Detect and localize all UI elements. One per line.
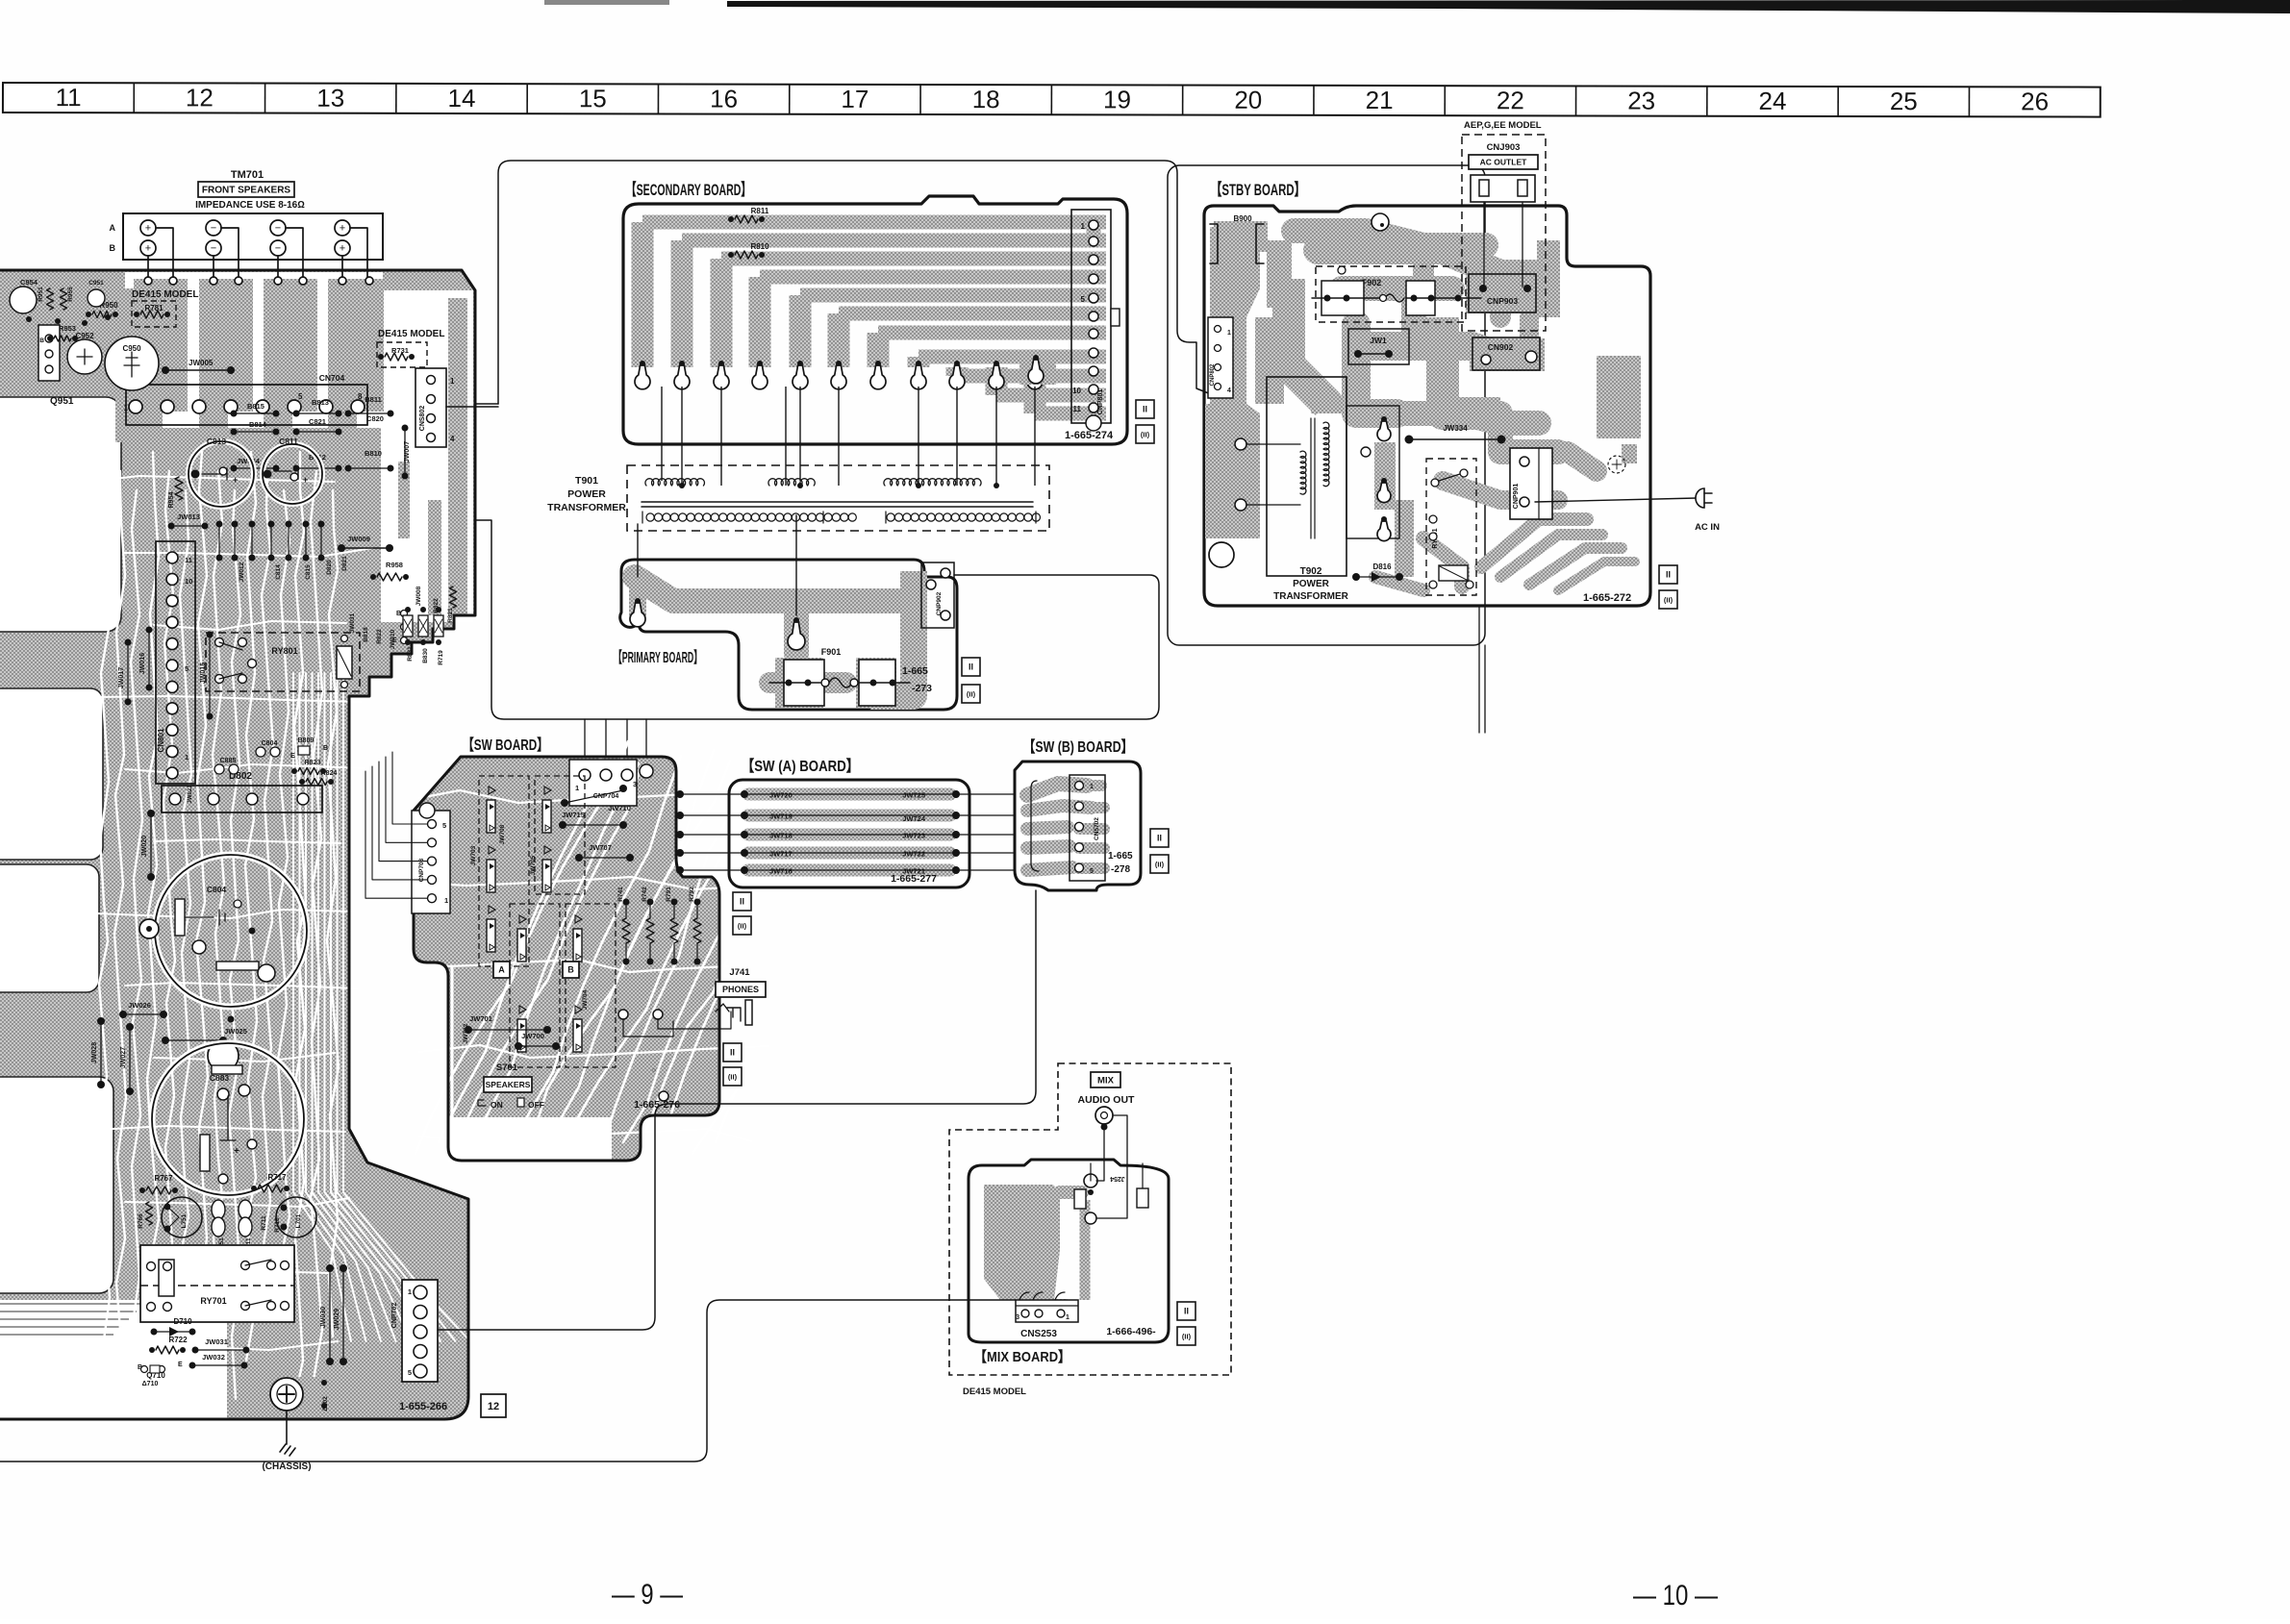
svg-text:CN704: CN704 bbox=[319, 373, 345, 383]
svg-text:R731: R731 bbox=[391, 346, 409, 355]
capacitor C952 bbox=[67, 339, 102, 374]
svg-text:【SW BOARD】: 【SW BOARD】 bbox=[463, 737, 548, 754]
push switch bbox=[519, 915, 526, 923]
fuse F902 dashed box bbox=[1316, 266, 1466, 322]
svg-text:C951: C951 bbox=[88, 280, 104, 287]
svg-text:JW701: JW701 bbox=[469, 1014, 492, 1023]
svg-text:1-665-277: 1-665-277 bbox=[891, 873, 937, 885]
svg-text:CNP802: CNP802 bbox=[1210, 363, 1216, 386]
svg-text:R781: R781 bbox=[144, 304, 164, 312]
svg-text:R741: R741 bbox=[617, 887, 624, 902]
svg-text:JW017: JW017 bbox=[118, 667, 125, 688]
primary windings (bottom row circles) bbox=[646, 513, 654, 521]
svg-text:1: 1 bbox=[450, 377, 455, 386]
wires main->CNP703 bbox=[392, 752, 427, 824]
connector CN801 bbox=[156, 541, 195, 784]
connector CN5702 bbox=[1070, 775, 1105, 881]
connector CNS253 bbox=[1016, 1300, 1078, 1322]
svg-text:1-665-274: 1-665-274 bbox=[1065, 430, 1114, 441]
svg-text:JW021: JW021 bbox=[188, 785, 193, 804]
svg-text:JW725: JW725 bbox=[902, 791, 925, 800]
svg-text:+: + bbox=[145, 222, 151, 234]
svg-text:CNP901: CNP901 bbox=[1513, 484, 1520, 510]
thin enclosure around STBY bbox=[1168, 165, 1485, 645]
svg-text:1-665: 1-665 bbox=[902, 665, 928, 677]
svg-text:B: B bbox=[39, 337, 44, 344]
svg-text:R958: R958 bbox=[386, 561, 403, 569]
grid markers STBY bbox=[1659, 565, 1677, 584]
svg-text:RY701: RY701 bbox=[200, 1296, 226, 1306]
main board outline stroke bbox=[0, 270, 475, 1419]
svg-text:JW031: JW031 bbox=[205, 1337, 228, 1346]
svg-text:1: 1 bbox=[444, 896, 448, 905]
svg-text:AEP,G,EE MODEL: AEP,G,EE MODEL bbox=[1464, 120, 1542, 131]
svg-text:RY801: RY801 bbox=[271, 646, 297, 656]
svg-text:JW710: JW710 bbox=[608, 804, 631, 812]
svg-text:5: 5 bbox=[1090, 868, 1094, 875]
resistor R810 bbox=[728, 252, 734, 258]
pad bbox=[679, 361, 685, 366]
grid markers primary bbox=[962, 658, 980, 676]
svg-text:AUDIO OUT: AUDIO OUT bbox=[1078, 1094, 1136, 1106]
svg-text:JW722: JW722 bbox=[902, 850, 925, 859]
svg-text:21: 21 bbox=[1366, 86, 1394, 114]
svg-text:CNP903: CNP903 bbox=[1487, 296, 1518, 306]
wire CNS802 to enclosure bbox=[446, 406, 498, 408]
svg-text:-278: -278 bbox=[1111, 864, 1130, 875]
svg-text:JW031: JW031 bbox=[349, 612, 356, 633]
svg-text:○: ○ bbox=[652, 1067, 656, 1074]
pad bbox=[718, 361, 724, 366]
svg-text:(II): (II) bbox=[1664, 596, 1673, 605]
svg-text:13: 13 bbox=[316, 84, 344, 112]
MIX dashed enclosure bbox=[949, 1063, 1231, 1375]
svg-text:B809: B809 bbox=[298, 737, 315, 744]
svg-text:JW009: JW009 bbox=[347, 535, 370, 543]
svg-text:B815: B815 bbox=[247, 402, 264, 411]
svg-text:19: 19 bbox=[1103, 85, 1131, 113]
svg-text:TRANSFORMER: TRANSFORMER bbox=[547, 502, 626, 513]
svg-text:1-666-496-: 1-666-496- bbox=[1106, 1326, 1156, 1337]
grid markers MIX bbox=[1177, 1302, 1195, 1320]
svg-text:II: II bbox=[1184, 1307, 1189, 1316]
svg-text:5: 5 bbox=[408, 1368, 412, 1377]
svg-text:R767: R767 bbox=[154, 1174, 173, 1183]
thin enclosure line (power section) bbox=[498, 161, 1211, 404]
pad bbox=[757, 361, 763, 366]
svg-text:A: A bbox=[498, 965, 505, 975]
pad bbox=[1032, 361, 1038, 366]
svg-text:R711: R711 bbox=[261, 1215, 267, 1231]
svg-text:D821: D821 bbox=[341, 556, 348, 571]
copper-free cutout top-left bbox=[0, 397, 121, 632]
svg-text:JW008: JW008 bbox=[415, 586, 422, 606]
svg-text:R823: R823 bbox=[305, 760, 321, 766]
jumper wire row bbox=[748, 847, 950, 860]
svg-text:DE415 MODEL: DE415 MODEL bbox=[132, 289, 198, 300]
svg-text:B818: B818 bbox=[363, 627, 369, 642]
svg-text:R831: R831 bbox=[407, 646, 414, 662]
svg-text:1: 1 bbox=[575, 784, 579, 792]
wire main board to CNS253 bbox=[0, 1300, 1016, 1462]
phones pads + jack J741 bbox=[618, 1010, 628, 1019]
push switch bbox=[489, 846, 495, 854]
svg-text:JW718: JW718 bbox=[769, 832, 793, 840]
MIX label + AUDIO OUT bbox=[1091, 1072, 1120, 1087]
svg-text:C885: C885 bbox=[220, 758, 237, 764]
svg-text:【STBY BOARD】: 【STBY BOARD】 bbox=[1211, 180, 1305, 199]
pads between caps bbox=[258, 964, 275, 982]
main amplifier board outline 1-655-266 bbox=[0, 270, 475, 1419]
svg-text:IMPEDANCE USE 8-16Ω: IMPEDANCE USE 8-16Ω bbox=[195, 200, 305, 211]
JW1 jumper box bbox=[1348, 329, 1409, 364]
svg-text:JW013: JW013 bbox=[177, 512, 200, 521]
svg-text:S701: S701 bbox=[496, 1062, 518, 1073]
svg-text:12: 12 bbox=[488, 1401, 499, 1412]
svg-text:C821: C821 bbox=[309, 417, 326, 426]
svg-text:−: − bbox=[211, 222, 216, 234]
svg-text:R791: R791 bbox=[666, 887, 672, 902]
svg-text:A: A bbox=[110, 223, 116, 233]
svg-text:L701: L701 bbox=[295, 1213, 302, 1228]
svg-text:POWER: POWER bbox=[1293, 579, 1330, 589]
svg-text:10: 10 bbox=[185, 577, 192, 586]
svg-text:FRONT SPEAKERS: FRONT SPEAKERS bbox=[202, 186, 291, 196]
svg-text:R719: R719 bbox=[438, 650, 444, 665]
svg-text:12: 12 bbox=[186, 83, 214, 112]
svg-text:(CHASSIS): (CHASSIS) bbox=[262, 1462, 311, 1472]
svg-text:C820: C820 bbox=[366, 414, 384, 423]
svg-text:D820: D820 bbox=[326, 560, 333, 575]
svg-text:II: II bbox=[1157, 834, 1162, 843]
J254 pad bbox=[1084, 1174, 1097, 1187]
svg-text:8: 8 bbox=[358, 392, 363, 401]
svg-text:R792: R792 bbox=[689, 887, 695, 902]
chassis ground bbox=[286, 1412, 288, 1444]
T902 transformer bbox=[1267, 377, 1346, 576]
svg-text:4: 4 bbox=[1227, 387, 1231, 394]
svg-text:T901: T901 bbox=[575, 475, 598, 487]
svg-text:25: 25 bbox=[1890, 87, 1918, 115]
connector CNP902 bbox=[921, 562, 954, 628]
svg-text:JW724: JW724 bbox=[902, 814, 926, 823]
svg-text:3: 3 bbox=[1016, 1314, 1019, 1321]
svg-text:D710: D710 bbox=[173, 1317, 192, 1326]
svg-text:E: E bbox=[290, 753, 295, 760]
svg-text:II: II bbox=[1666, 570, 1671, 580]
svg-text:CNS253: CNS253 bbox=[1020, 1329, 1057, 1339]
wires SW->SW(A) and SW(A)->SW(B) bbox=[676, 793, 744, 795]
RCA jack bbox=[1095, 1107, 1113, 1124]
two jumper rects bbox=[1074, 1189, 1086, 1209]
MIX gray blob bbox=[984, 1185, 1060, 1300]
svg-text:C954: C954 bbox=[20, 278, 38, 287]
svg-text:−: − bbox=[275, 222, 281, 234]
primary board outline 1-665-273 bbox=[620, 560, 957, 710]
jumper wire row bbox=[748, 864, 950, 877]
jumper wire row bbox=[748, 829, 950, 841]
svg-text:R766: R766 bbox=[138, 1213, 144, 1229]
svg-text:R742: R742 bbox=[642, 887, 648, 902]
svg-text:(II): (II) bbox=[1155, 861, 1165, 869]
SW board gray fill bbox=[414, 757, 719, 1161]
svg-text:R822: R822 bbox=[376, 629, 383, 644]
svg-text:JW707: JW707 bbox=[589, 843, 612, 852]
C751 / C711 caps bbox=[212, 1200, 225, 1219]
svg-text:TM701: TM701 bbox=[231, 169, 264, 181]
svg-text:— 9 —: — 9 — bbox=[612, 1579, 683, 1611]
svg-text:DE415 MODEL: DE415 MODEL bbox=[378, 329, 444, 339]
svg-text:POWER: POWER bbox=[567, 488, 606, 500]
svg-text:3: 3 bbox=[633, 780, 637, 788]
svg-text:PHONES: PHONES bbox=[722, 985, 759, 994]
connector CNS802 (right edge of main board) bbox=[415, 368, 446, 447]
svg-text:CN5702: CN5702 bbox=[1094, 817, 1100, 840]
svg-text:CN902: CN902 bbox=[1488, 342, 1514, 352]
relay RY701 box bbox=[140, 1245, 294, 1322]
svg-text:JW717: JW717 bbox=[769, 850, 793, 859]
SW(B) board outline 1-665-278 bbox=[1015, 762, 1141, 890]
svg-text:1-665-272: 1-665-272 bbox=[1583, 592, 1631, 604]
L751 / L701 coils bbox=[162, 1197, 202, 1237]
connector CNP702 bbox=[402, 1280, 438, 1382]
pad bbox=[640, 361, 645, 366]
svg-text:R717: R717 bbox=[267, 1173, 287, 1182]
big capacitor C804 (large can) bbox=[155, 855, 307, 1007]
big capacitors C813 / C811 bbox=[189, 441, 254, 507]
svg-text:JW705: JW705 bbox=[530, 855, 537, 875]
svg-text:R824: R824 bbox=[321, 770, 338, 777]
svg-text:B811: B811 bbox=[365, 395, 382, 404]
enclosure tail below STBY bbox=[1479, 607, 1485, 733]
push switch bbox=[575, 1006, 582, 1013]
svg-text:20: 20 bbox=[1234, 86, 1262, 114]
svg-text:AC OUTLET: AC OUTLET bbox=[1480, 158, 1527, 167]
svg-text:JW703: JW703 bbox=[470, 845, 477, 865]
svg-text:ON: ON bbox=[491, 1100, 503, 1110]
svg-text:Q951: Q951 bbox=[50, 396, 74, 407]
page-top scan bar bbox=[727, 0, 2290, 13]
svg-text:C952: C952 bbox=[75, 332, 94, 340]
connector CN704 bbox=[126, 385, 367, 425]
svg-text:+: + bbox=[303, 475, 308, 485]
svg-text:JW708: JW708 bbox=[499, 824, 506, 844]
svg-text:【PRIMARY BOARD】: 【PRIMARY BOARD】 bbox=[614, 649, 702, 666]
svg-text:B830: B830 bbox=[422, 648, 429, 663]
svg-text:J254: J254 bbox=[1110, 1175, 1125, 1182]
wires transformer to primary bbox=[637, 524, 639, 577]
svg-text:-273: -273 bbox=[912, 683, 932, 694]
svg-text:R810: R810 bbox=[750, 242, 769, 251]
svg-text:10: 10 bbox=[1072, 387, 1081, 395]
svg-text:JW029: JW029 bbox=[334, 1309, 340, 1330]
svg-text:11: 11 bbox=[1073, 405, 1082, 413]
svg-text:R722: R722 bbox=[168, 1336, 188, 1344]
copper-free cutout mid-left 2 bbox=[0, 864, 99, 992]
svg-text:【MIX BOARD】: 【MIX BOARD】 bbox=[974, 1348, 1070, 1365]
dashed pad circle bbox=[1608, 456, 1625, 473]
svg-text:R954: R954 bbox=[168, 492, 175, 509]
svg-text:C814: C814 bbox=[275, 564, 282, 580]
connector CNP901 bbox=[1510, 448, 1552, 519]
svg-text:−: − bbox=[211, 242, 216, 254]
svg-text:1: 1 bbox=[1066, 1314, 1070, 1321]
secondary windings (top row coils) bbox=[645, 479, 705, 486]
push switch bbox=[544, 846, 551, 854]
svg-text:22: 22 bbox=[1497, 86, 1524, 114]
grid markers secondary bbox=[1136, 400, 1154, 418]
relay RY801 dashed box bbox=[206, 633, 360, 691]
connector CN902 bbox=[1472, 337, 1540, 370]
svg-text:1: 1 bbox=[185, 753, 189, 762]
wires to RCA jack bbox=[1096, 1124, 1104, 1181]
grid ref 12 bbox=[481, 1394, 506, 1417]
svg-text:【SECONDARY BOARD】: 【SECONDARY BOARD】 bbox=[626, 180, 751, 199]
svg-text:J741: J741 bbox=[729, 967, 750, 978]
big capacitor C803 (large can) bbox=[152, 1043, 304, 1195]
capacitor C950 bbox=[105, 337, 159, 390]
svg-text:26: 26 bbox=[2021, 87, 2049, 115]
jumper wire row bbox=[748, 810, 950, 822]
connector CNP801 bbox=[1071, 210, 1111, 423]
svg-text:JW010: JW010 bbox=[390, 629, 396, 649]
svg-text:B: B bbox=[323, 745, 328, 752]
chassis screw pad bbox=[262, 1377, 331, 1412]
keyhole pad lower-left of CNP801 bbox=[1019, 352, 1056, 385]
long wire from main board to SW(B) via top rail bbox=[475, 520, 1159, 719]
push switch bbox=[519, 1006, 526, 1013]
pad bbox=[954, 361, 960, 366]
svg-text:B: B bbox=[110, 243, 116, 253]
svg-text:AC IN: AC IN bbox=[1695, 522, 1720, 533]
svg-text:(II): (II) bbox=[967, 690, 976, 699]
svg-text:17: 17 bbox=[841, 85, 868, 113]
svg-text:R821: R821 bbox=[447, 608, 454, 623]
STBY board outline 1-665-272 bbox=[1204, 206, 1650, 606]
svg-text:JW715: JW715 bbox=[562, 811, 585, 819]
CNP704 riser wires bbox=[585, 719, 627, 769]
svg-text:II: II bbox=[740, 897, 744, 907]
SW board outline 1-665-276 bbox=[414, 757, 719, 1161]
svg-text:B900: B900 bbox=[1233, 214, 1252, 223]
svg-text:JW704: JW704 bbox=[582, 989, 589, 1010]
svg-text:R955: R955 bbox=[67, 287, 74, 302]
push switch bbox=[575, 915, 582, 923]
svg-text:B813: B813 bbox=[312, 398, 329, 407]
svg-text:4: 4 bbox=[450, 435, 455, 443]
svg-text:C815: C815 bbox=[305, 564, 312, 580]
svg-text:JW026: JW026 bbox=[128, 1001, 151, 1010]
svg-text:JW032: JW032 bbox=[202, 1353, 225, 1362]
svg-text:−: − bbox=[275, 242, 281, 254]
svg-text:JW716: JW716 bbox=[769, 867, 793, 876]
svg-text:14: 14 bbox=[448, 84, 476, 112]
svg-text:JW005: JW005 bbox=[189, 359, 214, 367]
pad bbox=[797, 361, 803, 366]
svg-text:TRANSFORMER: TRANSFORMER bbox=[1273, 591, 1349, 602]
copper-free cutout mid-left 1 bbox=[0, 688, 103, 860]
svg-text:JW1: JW1 bbox=[1370, 336, 1387, 345]
svg-text:+: + bbox=[233, 475, 238, 485]
AC IN plug bbox=[1535, 498, 1697, 502]
svg-text:JW719: JW719 bbox=[769, 812, 793, 821]
svg-text:R953: R953 bbox=[59, 324, 76, 333]
copper-free cutout lower-left bbox=[0, 1077, 113, 1293]
secondary cage + pads bbox=[1346, 406, 1399, 538]
connector CNP903 bbox=[1469, 274, 1536, 312]
svg-text:1: 1 bbox=[124, 404, 129, 412]
secondary board outline 1-665-274 bbox=[623, 196, 1127, 444]
svg-text:JW012: JW012 bbox=[239, 562, 245, 582]
svg-text:L751: L751 bbox=[181, 1213, 188, 1228]
SW(A) board outline 1-665-277 bbox=[729, 780, 969, 887]
white band under top edge (terminal trace fingers) bbox=[125, 272, 383, 428]
STBY gray traces bbox=[1210, 227, 1260, 538]
push switch bbox=[489, 906, 495, 913]
wire CNP702 to SW(B) bottom bbox=[438, 890, 1036, 1330]
svg-text:(II): (II) bbox=[728, 1073, 738, 1082]
svg-text:OFF: OFF bbox=[528, 1100, 544, 1110]
svg-text:E: E bbox=[178, 1362, 183, 1368]
svg-text:(II): (II) bbox=[1182, 1333, 1192, 1341]
svg-text:JW020: JW020 bbox=[141, 836, 148, 857]
primary gray traces bbox=[635, 577, 904, 601]
svg-text:II: II bbox=[969, 662, 973, 672]
svg-text:F901: F901 bbox=[821, 647, 842, 657]
svg-text:5: 5 bbox=[1081, 295, 1086, 304]
svg-text:+: + bbox=[340, 242, 345, 254]
svg-text:SPEAKERS: SPEAKERS bbox=[486, 1080, 531, 1089]
svg-text:【SW (B) BOARD】: 【SW (B) BOARD】 bbox=[1023, 738, 1133, 756]
svg-text:+: + bbox=[145, 242, 151, 254]
relay RY901 dashed bbox=[1426, 459, 1476, 595]
svg-text:1: 1 bbox=[1227, 330, 1231, 337]
grid markers SW bbox=[723, 1043, 742, 1062]
svg-text:Δ710: Δ710 bbox=[142, 1381, 159, 1387]
svg-text:DE415 MODEL: DE415 MODEL bbox=[963, 1387, 1026, 1397]
switch blocks (dashed) bbox=[479, 776, 529, 966]
svg-text:【SW (A) BOARD】: 【SW (A) BOARD】 bbox=[742, 758, 859, 775]
T901 power transformer dashed box bbox=[627, 465, 1049, 531]
svg-text:JW028: JW028 bbox=[91, 1042, 98, 1063]
push switch bbox=[544, 787, 551, 794]
svg-text:JW030: JW030 bbox=[320, 1307, 327, 1328]
svg-text:C804: C804 bbox=[262, 740, 278, 747]
svg-text:C811: C811 bbox=[279, 437, 298, 446]
pad bbox=[994, 361, 999, 366]
connector CNP703 bbox=[412, 811, 450, 913]
svg-text:+: + bbox=[234, 1146, 239, 1157]
column ruler 11-26 bbox=[3, 83, 2101, 117]
svg-text:5: 5 bbox=[298, 392, 303, 401]
grid markers SW(A) bbox=[733, 892, 751, 911]
svg-text:1: 1 bbox=[1090, 784, 1094, 790]
svg-text:18: 18 bbox=[972, 85, 1000, 113]
svg-text:11: 11 bbox=[185, 556, 192, 564]
svg-text:(II): (II) bbox=[1141, 431, 1150, 439]
svg-text:R811: R811 bbox=[751, 207, 769, 215]
svg-text:D816: D816 bbox=[1372, 562, 1392, 571]
svg-text:B: B bbox=[567, 965, 574, 975]
diode D802 row box bbox=[162, 786, 322, 812]
CNP801 key tab bbox=[1111, 309, 1120, 326]
core lines bbox=[642, 502, 1033, 507]
svg-text:15: 15 bbox=[579, 84, 607, 112]
pad bbox=[836, 361, 842, 366]
svg-text:CNP801: CNP801 bbox=[1097, 389, 1104, 415]
svg-text:24: 24 bbox=[1759, 87, 1787, 115]
svg-text:JW016: JW016 bbox=[139, 653, 146, 674]
